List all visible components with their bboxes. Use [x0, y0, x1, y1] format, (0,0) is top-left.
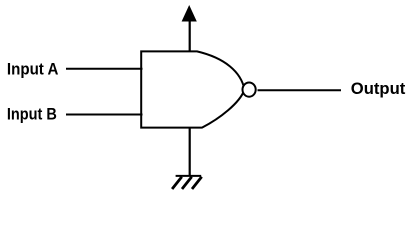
ground hatch stroke 3 — [192, 177, 202, 189]
svg-text:Input A: Input A — [7, 59, 59, 78]
ground hatch stroke 2 — [182, 177, 192, 189]
wire output — [258, 89, 342, 91]
nand gate U1 body — [141, 51, 244, 127]
nand gate U1 inversion bubble — [243, 83, 256, 97]
wire input A — [66, 68, 143, 70]
svg-text:Input B: Input B — [7, 104, 57, 123]
wire input B — [66, 114, 143, 116]
wire power stem — [189, 20, 191, 52]
svg-text:Output: Output — [351, 79, 406, 98]
ground bar — [176, 175, 202, 177]
power supply arrow head — [182, 5, 197, 22]
wire ground stem — [189, 127, 191, 176]
ground hatch stroke 1 — [172, 177, 182, 189]
